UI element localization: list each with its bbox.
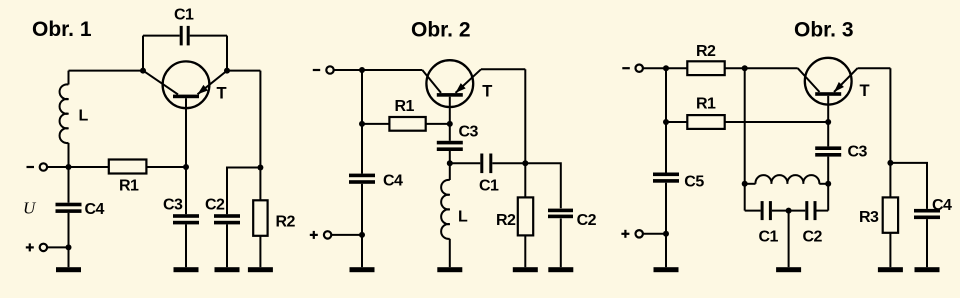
wire right rail riser xyxy=(259,71,261,168)
node C1-right junction xyxy=(224,68,230,74)
node tank junction xyxy=(447,160,453,166)
node R1-base junction xyxy=(447,121,453,127)
wire C1 left riser xyxy=(142,36,144,71)
wire tank left down xyxy=(744,184,746,211)
transistor T base lead xyxy=(185,98,187,167)
minus polarity mark xyxy=(313,69,320,71)
node base-R1 junction xyxy=(825,119,831,125)
ground R2 xyxy=(513,267,538,272)
node base junction xyxy=(183,164,189,170)
wire node E to R2 xyxy=(524,163,526,197)
wire R1 to base node xyxy=(725,121,829,123)
svg-text:C1: C1 xyxy=(759,229,779,246)
ground tank xyxy=(776,267,801,272)
wire left rail upper xyxy=(665,68,667,172)
svg-text:L: L xyxy=(79,108,89,125)
node D junction xyxy=(359,67,365,73)
wire node G to collector xyxy=(745,67,798,69)
svg-text:C4: C4 xyxy=(383,172,403,189)
transistor T base lead xyxy=(449,97,451,141)
svg-text:C2: C2 xyxy=(205,197,225,214)
wire node D to collector xyxy=(362,69,422,71)
resistor R2 xyxy=(253,200,267,236)
capacitor C1 xyxy=(180,26,190,46)
wire emitter node to right rail xyxy=(227,70,260,72)
wire emitter riser xyxy=(524,69,526,163)
wire left rail lower segment xyxy=(68,143,70,203)
terminal plus xyxy=(40,244,47,251)
ground C3 xyxy=(174,267,199,272)
svg-text:R3: R3 xyxy=(859,209,879,226)
svg-text:C1: C1 xyxy=(479,177,499,194)
node A junction xyxy=(66,164,72,170)
wire left rail upper xyxy=(361,70,363,174)
transistor T base lead xyxy=(827,96,829,147)
node right rail junction xyxy=(257,165,263,171)
wire R3 to ground xyxy=(889,233,891,267)
wire R2 to node G xyxy=(725,67,745,69)
wire C3 to tank node xyxy=(449,151,451,163)
resistor R1 xyxy=(389,117,425,131)
svg-text:L: L xyxy=(458,208,468,225)
wire to C1 left plate xyxy=(143,35,180,37)
wire minus terminal to node D xyxy=(334,69,362,71)
inductor tank coil stub right xyxy=(819,183,828,185)
resistor R3 xyxy=(883,197,898,232)
svg-text:C2: C2 xyxy=(803,229,823,246)
svg-text:C4: C4 xyxy=(85,201,105,218)
transistor T emitter arrow xyxy=(834,82,844,92)
inductor L upper stub xyxy=(449,163,451,180)
svg-text:C3: C3 xyxy=(163,197,183,214)
ground L xyxy=(437,267,462,272)
node tank-center junction xyxy=(786,208,792,214)
wire node H to R3 xyxy=(889,163,891,198)
capacitor C5 xyxy=(653,173,679,183)
transistor T emitter lead xyxy=(198,71,228,95)
svg-text:Obr. 2: Obr. 2 xyxy=(411,19,471,42)
wire C4 to ground xyxy=(361,184,363,267)
inductor tank coil xyxy=(755,175,819,184)
wire node A to R1 xyxy=(69,166,109,168)
wire C1 to node E xyxy=(492,162,525,164)
svg-text:C4: C4 xyxy=(932,197,952,214)
capacitor C3 xyxy=(815,146,841,156)
svg-text:C3: C3 xyxy=(459,123,479,140)
svg-text:R1: R1 xyxy=(696,95,716,112)
inductor L xyxy=(441,180,450,239)
svg-text:R2: R2 xyxy=(496,212,516,229)
transistor T collector lead xyxy=(143,71,178,95)
node plus junction xyxy=(663,231,669,237)
wire R1 to base node xyxy=(146,166,186,168)
svg-text:Obr. 3: Obr. 3 xyxy=(794,19,854,42)
wire node E to C2 branch xyxy=(525,163,561,208)
node H junction xyxy=(887,160,893,166)
svg-text:R1: R1 xyxy=(119,178,139,195)
node tank-right junction xyxy=(825,181,831,187)
terminal minus xyxy=(636,65,643,72)
transistor T base bar xyxy=(815,92,841,96)
capacitor C1 xyxy=(761,201,772,220)
wire C1 right riser xyxy=(226,36,228,71)
terminal plus xyxy=(324,231,331,238)
capacitor C3 xyxy=(437,141,463,151)
wire C5 to ground xyxy=(665,183,667,268)
wire emitter corner to rail xyxy=(481,68,525,70)
wire R2 to ground xyxy=(259,236,261,267)
plus polarity mark xyxy=(26,243,34,251)
node C1-left junction xyxy=(140,68,146,74)
transistor T emitter lead xyxy=(456,69,482,93)
svg-text:C5: C5 xyxy=(684,173,704,190)
svg-text:T: T xyxy=(217,85,227,103)
wire base node to C3 xyxy=(185,167,187,214)
wire plus terminal to rail xyxy=(643,233,666,235)
wire node to R2 xyxy=(259,168,261,201)
node G junction xyxy=(742,65,748,71)
terminal minus xyxy=(326,66,333,73)
transistor T emitter lead xyxy=(834,68,858,92)
svg-text:C2: C2 xyxy=(577,212,597,229)
capacitor C4 xyxy=(914,209,940,219)
ground left rail xyxy=(350,267,375,272)
ground left rail xyxy=(56,267,81,272)
svg-text:T: T xyxy=(482,83,492,101)
ground R2 xyxy=(248,267,273,272)
wire center node to ground xyxy=(788,211,790,268)
wire C4 to ground xyxy=(68,213,70,267)
ground C2 xyxy=(215,267,240,272)
wire L to ground xyxy=(449,239,451,267)
node R1-left junction xyxy=(663,119,669,125)
wire C1 to center node xyxy=(772,210,789,212)
transistor T body xyxy=(163,61,210,108)
svg-text:Obr. 1: Obr. 1 xyxy=(32,18,92,41)
wire top rail xyxy=(69,70,144,72)
svg-text:C1: C1 xyxy=(174,7,194,24)
capacitor C1 xyxy=(480,154,492,174)
ground C4 xyxy=(915,267,940,272)
wire node H to C4 branch xyxy=(890,163,927,209)
wire R2 to ground xyxy=(524,235,526,267)
wire C2 to tank right xyxy=(817,210,829,212)
wire minus terminal to node F xyxy=(643,67,666,69)
transistor T emitter arrow xyxy=(198,85,208,94)
wire R1 to base xyxy=(426,123,450,125)
minus polarity mark xyxy=(27,166,35,168)
svg-text:R2: R2 xyxy=(696,43,716,60)
wire C3 to ground xyxy=(185,224,187,267)
wire emitter riser xyxy=(889,68,891,163)
resistor R2 xyxy=(687,61,724,75)
plus polarity mark xyxy=(310,231,318,239)
terminal plus xyxy=(636,230,643,237)
wire node G riser to tank xyxy=(744,68,746,184)
svg-text:R2: R2 xyxy=(276,214,296,231)
node B junction plus rail xyxy=(66,244,72,250)
wire C2 to ground xyxy=(560,219,562,268)
terminal minus xyxy=(40,163,47,170)
node R1-left junction xyxy=(359,121,365,127)
wire minus terminal to node A xyxy=(48,166,69,168)
wire tank bottom left xyxy=(745,210,761,212)
wire C2 to ground xyxy=(226,224,228,267)
ground C2 xyxy=(548,267,573,272)
wire emitter corner to rail xyxy=(858,67,891,69)
svg-text:R1: R1 xyxy=(395,98,415,115)
capacitor C4 xyxy=(349,174,375,184)
capacitor C2 xyxy=(214,214,240,224)
svg-text:T: T xyxy=(860,82,870,100)
resistor R1 xyxy=(687,115,724,129)
wire tank node to C1 xyxy=(450,162,481,164)
transistor T collector lead xyxy=(798,68,820,92)
transistor T base bar xyxy=(173,95,199,99)
node plus junction xyxy=(359,232,365,238)
wire center node to C2 xyxy=(789,210,806,212)
ground left rail xyxy=(654,267,679,272)
svg-text:C3: C3 xyxy=(848,144,868,161)
minus polarity mark xyxy=(622,67,630,69)
inductor tank coil stub left xyxy=(745,183,756,185)
wire left rail top segment xyxy=(68,71,70,85)
wire C1 right plate to riser xyxy=(190,35,227,37)
transistor T base bar xyxy=(437,93,463,97)
wire node to C2 branch xyxy=(227,168,260,215)
transistor T body xyxy=(426,60,473,107)
wire node F to R2 xyxy=(666,67,687,69)
plus polarity mark xyxy=(621,230,629,238)
inductor L xyxy=(60,84,69,143)
wire rail to R1 xyxy=(362,123,389,125)
svg-text:U: U xyxy=(23,199,37,218)
ground R3 xyxy=(878,267,903,272)
wire C4 to ground xyxy=(926,219,928,267)
wire plus terminal to node B xyxy=(48,246,69,248)
resistor R1 xyxy=(109,160,147,174)
node E junction xyxy=(522,160,528,166)
wire plus terminal to rail xyxy=(332,234,362,236)
node F junction xyxy=(663,65,669,71)
transistor T body xyxy=(805,58,852,105)
capacitor C2 xyxy=(805,201,816,220)
wire tank right riser xyxy=(827,157,829,211)
capacitor C2 xyxy=(548,209,573,219)
transistor T collector lead xyxy=(422,70,441,93)
node tank-left junction xyxy=(742,181,748,187)
resistor R2 xyxy=(518,197,533,235)
transistor T emitter arrow xyxy=(456,83,466,93)
wire rail to R1 xyxy=(666,121,687,123)
capacitor C4 xyxy=(56,203,82,213)
capacitor C3 xyxy=(173,214,199,224)
